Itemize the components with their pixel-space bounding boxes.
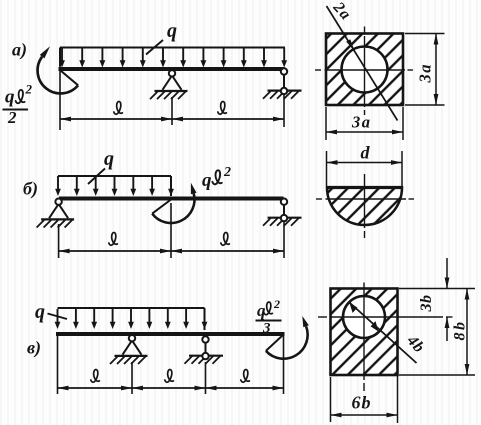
section 1 centrelines xyxy=(315,27,413,116)
svg-text:q: q xyxy=(257,301,266,320)
svg-text:2: 2 xyxy=(25,82,33,97)
svg-text:в): в) xyxy=(27,338,41,359)
label l (beam C span 3) xyxy=(241,369,250,382)
svg-text:2: 2 xyxy=(273,297,280,311)
extension lines beam C xyxy=(58,336,284,394)
svg-text:3a: 3a xyxy=(351,113,372,132)
leader line 4b (hole diameter) xyxy=(349,302,416,363)
label l (beam A left span) xyxy=(114,101,123,114)
svg-text:4b: 4b xyxy=(403,332,428,357)
moment ql²/2 arrow at left end of beam A xyxy=(38,46,79,93)
svg-text:q: q xyxy=(202,170,212,191)
section 3 centrelines xyxy=(318,283,453,392)
label l (beam C span 1) xyxy=(91,369,100,382)
link support (right end of beam A) xyxy=(263,68,302,98)
section 1: square 3a x 3a with hatching xyxy=(326,34,403,106)
svg-text:q: q xyxy=(167,20,177,42)
svg-text:q: q xyxy=(35,301,45,323)
svg-text:3a: 3a xyxy=(416,63,435,84)
label ql² xyxy=(202,165,231,191)
beam A xyxy=(59,67,285,71)
dimension line l + l (beam B) xyxy=(59,250,284,252)
beam C xyxy=(56,332,285,336)
leader line 2a (hole diameter) xyxy=(327,6,398,121)
dimension 6b (bottom of section 3) xyxy=(331,375,398,423)
link support (right end of beam B) xyxy=(263,199,302,226)
extension lines beam B xyxy=(59,203,284,258)
moment ql²/3 arrow at right end of beam C xyxy=(266,316,309,359)
section 2: flat top edge xyxy=(326,186,403,189)
svg-text:6b: 6b xyxy=(352,393,372,413)
label ql²/2 xyxy=(3,82,33,128)
label ql²/3 xyxy=(256,297,282,337)
label l (beam B right span) xyxy=(221,232,230,245)
svg-text:б): б) xyxy=(23,179,38,200)
distributed load q on beam B xyxy=(55,176,174,196)
pin support (middle of beam A) xyxy=(150,70,188,99)
label l (beam C span 2) xyxy=(165,369,174,382)
dimension 8b (section 3) xyxy=(399,289,475,376)
svg-text:3: 3 xyxy=(262,321,271,337)
label l (beam B left span) xyxy=(109,232,118,245)
section 3: rectangle 6b x 8b with hatching xyxy=(331,289,398,376)
moment ql² arrow at middle of beam B xyxy=(152,183,196,223)
svg-text:2a: 2a xyxy=(329,0,354,24)
dimension line l + l (beam A) xyxy=(60,118,284,120)
distributed load q on beam C xyxy=(55,308,208,330)
label l (beam A right span) xyxy=(218,101,227,114)
svg-text:3b: 3b xyxy=(418,295,435,313)
load label q (beam B) xyxy=(88,148,114,184)
dimension 3a (bottom of section 1) xyxy=(326,107,403,140)
section 2 centrelines xyxy=(316,174,414,238)
load label q (beam A) xyxy=(146,20,177,55)
svg-text:q: q xyxy=(5,87,15,108)
section 1: circular hole dia 2a xyxy=(342,47,388,93)
svg-text:d: d xyxy=(361,143,371,163)
beam B xyxy=(59,197,284,201)
svg-text:q: q xyxy=(104,148,114,170)
svg-text:8b: 8b xyxy=(452,320,469,341)
pin support (first intermediate, beam C) xyxy=(110,335,148,364)
extension lines beam A xyxy=(60,66,284,130)
svg-text:а): а) xyxy=(12,40,27,61)
dimension 3b (section 3) xyxy=(399,258,453,341)
load label q (beam C) xyxy=(35,301,67,323)
dimension 3a (right side of section 1) xyxy=(405,34,445,106)
dimension d (section 2) xyxy=(327,151,403,186)
link support (second intermediate, beam C) xyxy=(185,336,224,364)
section 3: circular hole dia 4b xyxy=(343,296,385,338)
section 2: semicircle dia d with hatching xyxy=(327,188,402,226)
pin support (left end of beam B) xyxy=(37,199,75,228)
dimension line l + l + l (beam C) xyxy=(58,387,284,389)
distributed load q on beam A xyxy=(59,48,287,68)
svg-text:2: 2 xyxy=(7,108,17,127)
svg-text:2: 2 xyxy=(223,165,231,180)
